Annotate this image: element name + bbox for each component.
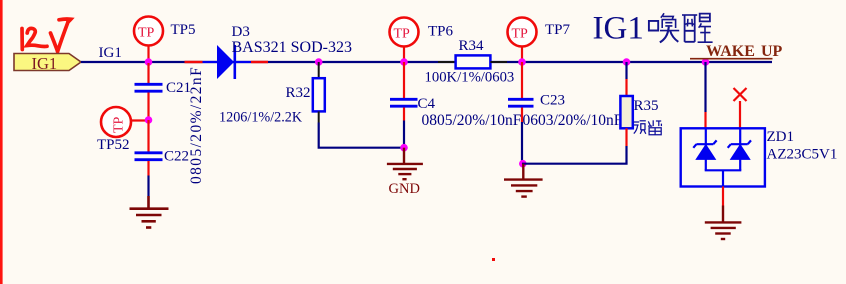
diode D3 (185, 45, 269, 79)
svg-text:IG1: IG1 (593, 11, 644, 47)
junction node TP6/C4 (400, 58, 408, 66)
title 醒 glyph (682, 14, 713, 43)
test point TP7 (508, 18, 537, 63)
resistor R35 (620, 62, 632, 146)
svg-text:0805/20%/22nF: 0805/20%/22nF (188, 66, 205, 184)
svg-text:R32: R32 (286, 85, 311, 101)
svg-text:TP: TP (138, 26, 155, 41)
wire main horizontal (81, 61, 772, 63)
test point TP5 (134, 17, 163, 63)
resistor R32 (313, 62, 325, 123)
svg-text:100K/1%/0603: 100K/1%/0603 (425, 70, 515, 86)
svg-text:TP: TP (112, 116, 127, 133)
junction node IG1/TP5/C21 (145, 58, 153, 66)
junction node C21/C22/TP52 (145, 116, 153, 124)
junction node R35 tap (623, 58, 631, 66)
svg-text:C4: C4 (418, 96, 436, 112)
annotation 12V handwritten (22, 19, 71, 51)
capacitor C23 (508, 62, 534, 164)
wire ZD1 tap down (704, 62, 706, 112)
svg-text:TP7: TP7 (545, 22, 571, 38)
svg-text:GND: GND (389, 181, 420, 197)
svg-text:TP: TP (512, 27, 529, 42)
svg-text:WAKE: WAKE (706, 43, 755, 60)
svg-text:IG1: IG1 (99, 45, 122, 61)
svg-text:R34: R34 (459, 38, 485, 54)
pin ZD1 pin1 (704, 112, 706, 128)
svg-text:TP52: TP52 (97, 137, 130, 153)
wire C23 bottom to R35 bottom (522, 146, 627, 164)
svg-text:BAS321 SOD-323: BAS321 SOD-323 (232, 39, 352, 56)
title 唤 glyph (649, 13, 679, 42)
resistor R34 (438, 55, 507, 68)
pin ZD1 pin2 to ground (722, 187, 724, 206)
wire C22 to ground (147, 176, 149, 197)
svg-text:TP6: TP6 (428, 24, 454, 40)
svg-text:0603/20%/10nF: 0603/20%/10nF (523, 112, 623, 129)
capacitor C4 (390, 62, 418, 148)
stray red dot (492, 258, 495, 261)
ground GND under C4 (387, 148, 423, 180)
capacitor C21 (135, 63, 163, 120)
ground under C22 (130, 196, 169, 228)
junction node TP7/C23 (518, 58, 526, 66)
test point TP6 (390, 18, 419, 63)
svg-text:R35: R35 (634, 98, 659, 114)
svg-text:ZD1: ZD1 (767, 129, 795, 145)
capacitor C22 (135, 120, 163, 176)
svg-text:D3: D3 (232, 24, 250, 40)
svg-text:IG1: IG1 (32, 54, 58, 73)
sheet border left red line (0, 0, 3, 284)
test point TP52 (101, 107, 149, 137)
svg-text:AZ23C5V1: AZ23C5V1 (767, 147, 838, 163)
ground under C23 (504, 164, 543, 197)
wire R32 bottom to C4 bottom (319, 123, 404, 148)
svg-text:0805/20%/10nF: 0805/20%/10nF (422, 112, 522, 129)
junction node ZD1 tap (702, 58, 710, 66)
junction node C23/R35/GND (519, 160, 527, 168)
junction node R32 tap (315, 58, 323, 66)
svg-text:TP: TP (394, 27, 411, 42)
pin ZD1 pin3 stub (739, 101, 741, 128)
ground under ZD1 (705, 206, 742, 240)
svg-text:UP: UP (761, 43, 783, 60)
port IG1 (14, 54, 81, 74)
junction node C4/R32/GND (400, 144, 408, 152)
net label WAKE_UP (690, 43, 783, 60)
value 预留 (reserved) glyphs (633, 120, 661, 135)
svg-text:1206/1%/2.2K: 1206/1%/2.2K (219, 110, 303, 126)
svg-text:C23: C23 (540, 93, 565, 109)
svg-text:C22: C22 (164, 149, 189, 165)
svg-text:TP5: TP5 (171, 22, 196, 38)
no-ERC marker X (734, 88, 747, 101)
zener array ZD1 (681, 128, 765, 187)
